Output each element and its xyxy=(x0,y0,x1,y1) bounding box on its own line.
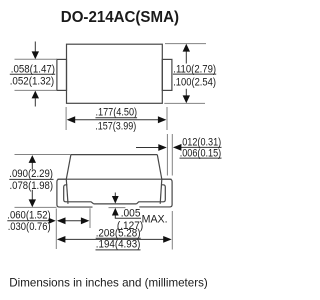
extension line 012 outer xyxy=(171,134,173,176)
arrow 060 text leader (right) xyxy=(49,218,56,224)
svg-text:.060(1.52): .060(1.52) xyxy=(7,209,51,221)
arrow 060 right (outward) xyxy=(81,217,90,224)
dim 208 line xyxy=(63,238,165,240)
arrow 012 at outer line (left) xyxy=(173,144,182,151)
svg-text:.177(4.50): .177(4.50) xyxy=(96,106,138,118)
svg-text:Dimensions in inches and (mill: Dimensions in inches and (millimeters) xyxy=(9,277,208,290)
extension line seating left xyxy=(15,206,57,208)
extension line rect top right xyxy=(165,43,206,45)
fraction bar 177 xyxy=(96,117,138,119)
dim 110 lower stem xyxy=(185,89,187,96)
extension line tab bottom left xyxy=(15,89,57,91)
extension line 060 208 left shared xyxy=(55,209,57,250)
svg-text:.090(2.29): .090(2.29) xyxy=(9,168,53,180)
extension line 177 left xyxy=(65,107,67,130)
dim 012 right leader underline xyxy=(180,146,222,148)
extension line body top left xyxy=(15,154,71,156)
dim 012 left leader xyxy=(136,147,159,149)
extension line rect bottom right xyxy=(164,102,205,104)
arrow 058 bottom (up) xyxy=(32,91,39,99)
left lead inner contour xyxy=(64,185,94,204)
dim 060 line xyxy=(58,220,84,222)
arrow 012 at inner line (right) xyxy=(158,144,167,151)
arrow 060 left (outward) xyxy=(57,217,66,224)
side view body bottom center xyxy=(94,203,137,205)
dim 177 line xyxy=(72,119,161,121)
side view body left side lower xyxy=(66,179,68,204)
arrow 177 left xyxy=(67,116,76,123)
arrow 110 bottom (down) xyxy=(183,95,190,103)
arrow 177 right xyxy=(158,116,167,123)
arrow 058 top (down) xyxy=(32,51,39,59)
dim 090 upper stem xyxy=(31,162,33,170)
extension line 208 right xyxy=(171,211,173,250)
left lead outer contour xyxy=(57,179,93,207)
side view body right slope xyxy=(157,155,162,180)
dim 058 bottom stem xyxy=(34,98,36,106)
arrow 090 bottom (down) xyxy=(29,199,36,207)
dim 058 top stem xyxy=(34,42,36,52)
svg-text:.052(1.32): .052(1.32) xyxy=(10,75,55,87)
arrow 208 left xyxy=(57,236,66,243)
svg-text:.157(3.99): .157(3.99) xyxy=(95,121,136,133)
side view body top edge xyxy=(71,154,157,156)
extension line 060 right xyxy=(89,208,91,228)
arrow 090 top (up) xyxy=(29,155,36,163)
fraction bar 005 xyxy=(115,217,141,219)
svg-text:.030(0.76): .030(0.76) xyxy=(8,221,51,233)
svg-text:.058(1.47): .058(1.47) xyxy=(11,63,55,75)
seating plane stub under 005 xyxy=(109,207,126,209)
dim 006 underline xyxy=(180,157,222,159)
top view body rectangle xyxy=(67,44,163,103)
arrow 208 right xyxy=(163,236,172,243)
dim 110 upper stem xyxy=(185,51,187,64)
top view right terminal tab xyxy=(162,59,172,90)
svg-text:MAX.: MAX. xyxy=(142,214,168,226)
dim 005 down stub xyxy=(114,193,116,197)
svg-text:.100(2.54): .100(2.54) xyxy=(173,76,216,88)
fraction bar 058 xyxy=(10,73,55,75)
dim 060 leader bar from text xyxy=(7,220,53,222)
svg-text:.005: .005 xyxy=(121,207,141,219)
fraction bar 194 xyxy=(96,249,141,251)
fraction bar 110 xyxy=(173,73,216,75)
svg-text:.194(4.93): .194(4.93) xyxy=(96,239,141,251)
fraction bar 090 xyxy=(9,178,53,180)
top view left terminal tab xyxy=(57,59,67,90)
dim 090 lower stem xyxy=(31,190,33,201)
svg-text:.006(0.15): .006(0.15) xyxy=(180,147,222,159)
right lead inner contour xyxy=(137,185,166,204)
arrow 005 down xyxy=(112,196,119,204)
side view parting line xyxy=(58,178,172,180)
side view body right side lower xyxy=(160,179,162,204)
extension line 177 right xyxy=(166,107,168,130)
extension line 012 inner xyxy=(166,134,168,176)
side view body left slope xyxy=(66,155,71,180)
right lead outer contour xyxy=(139,179,172,207)
arrow 110 top (up) xyxy=(183,44,190,52)
svg-text:DO-214AC(SMA): DO-214AC(SMA) xyxy=(61,9,179,26)
extension line tab top left xyxy=(15,58,57,60)
svg-text:.078(1.98): .078(1.98) xyxy=(10,180,54,192)
fraction bar 208 xyxy=(96,237,141,239)
arrow 005 up xyxy=(112,208,119,216)
dim 005 up stub xyxy=(114,214,116,218)
